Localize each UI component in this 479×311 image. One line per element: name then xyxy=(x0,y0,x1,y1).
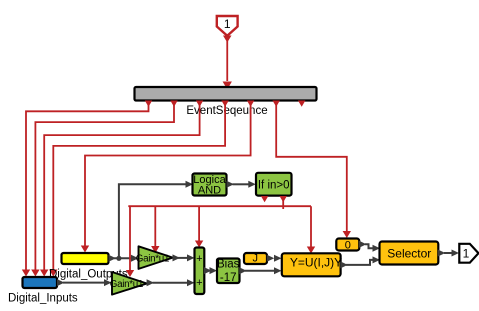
svg-text:AND: AND xyxy=(198,185,221,197)
wire: summation -> Bias xyxy=(204,267,217,274)
wire: event link If port2 -> gains, sum, Y blocks (branched) xyxy=(126,199,315,277)
wire: Digital_Inputs -> Gain*u1 (lower gain) xyxy=(57,279,112,286)
svg-text:Bias: Bias xyxy=(217,259,240,271)
svg-text:1: 1 xyxy=(224,17,231,31)
input event port 1 (top pentagon) xyxy=(217,16,238,36)
Y=U(I,J)Y block xyxy=(282,253,342,276)
Logical AND block xyxy=(193,174,227,197)
wire: J -> Y=U(I,J)Y upper input xyxy=(267,255,282,262)
svg-text:EventSeqeunce: EventSeqeunce xyxy=(186,105,267,117)
svg-text:0: 0 xyxy=(345,240,351,252)
wire: Digital_Outputs -> Gain*u1 (upper gain), junction to Logical AND xyxy=(109,181,194,262)
wire: lower gain -> summation + xyxy=(147,279,195,286)
Digital_Inputs block xyxy=(8,277,78,305)
wire: Selector -> output port 1 xyxy=(438,250,459,257)
wire: event link bar port3 -> Digital_Inputs xyxy=(40,104,200,277)
svg-text:If in>0: If in>0 xyxy=(258,180,290,192)
wire: Logical AND -> If in>0 xyxy=(227,181,256,188)
gain block Gain*u1 (lower) xyxy=(110,272,147,295)
summation block xyxy=(195,248,205,295)
event output ports of bar (7 triangles) xyxy=(145,101,306,107)
svg-text:Digital_Inputs: Digital_Inputs xyxy=(8,293,78,305)
svg-text:Gain*u1: Gain*u1 xyxy=(136,253,169,264)
wire: Y=U(I,J)Y -> Selector lower input xyxy=(340,256,380,268)
wire: event link bar port2 -> Digital_Inputs xyxy=(31,104,174,277)
output port 1 (right pentagon) xyxy=(459,244,478,263)
Bias block xyxy=(217,259,240,285)
svg-text:-17: -17 xyxy=(220,272,237,284)
wire: event link bar port4 -> Digital_Inputs xyxy=(49,104,225,277)
wire: event link from port 1 to EventSeqeunce bar xyxy=(223,36,232,90)
svg-text:+: + xyxy=(196,253,202,265)
Digital_Outputs block xyxy=(49,253,128,281)
constant block 0 xyxy=(336,239,359,252)
wire: Bias -> Y=U(I,J)Y lower input xyxy=(239,267,281,274)
If in>0 block xyxy=(256,173,292,196)
svg-text:Gain*u1: Gain*u1 xyxy=(110,279,143,290)
svg-text:J: J xyxy=(253,253,259,265)
wire: upper gain -> summation + xyxy=(173,254,195,261)
wire: event link bar port6 -> block 0 xyxy=(276,104,351,238)
svg-text:+: + xyxy=(196,277,202,289)
constant block J xyxy=(244,253,267,265)
svg-text:Selector: Selector xyxy=(387,247,431,261)
wire: event link bar port5 -> Digital_Outputs xyxy=(81,104,251,253)
svg-text:1: 1 xyxy=(463,247,470,261)
Selector block xyxy=(380,242,439,265)
gain block Gain*u1 (upper) xyxy=(136,246,173,269)
wire: 0 -> Selector upper input xyxy=(359,241,380,252)
wire: event link bar port1 -> Digital_Inputs xyxy=(22,104,149,277)
EventSeqeunce bar xyxy=(135,87,317,117)
event output ports of If block xyxy=(261,196,287,202)
svg-text:Y=U(I,J)Y: Y=U(I,J)Y xyxy=(290,256,342,270)
